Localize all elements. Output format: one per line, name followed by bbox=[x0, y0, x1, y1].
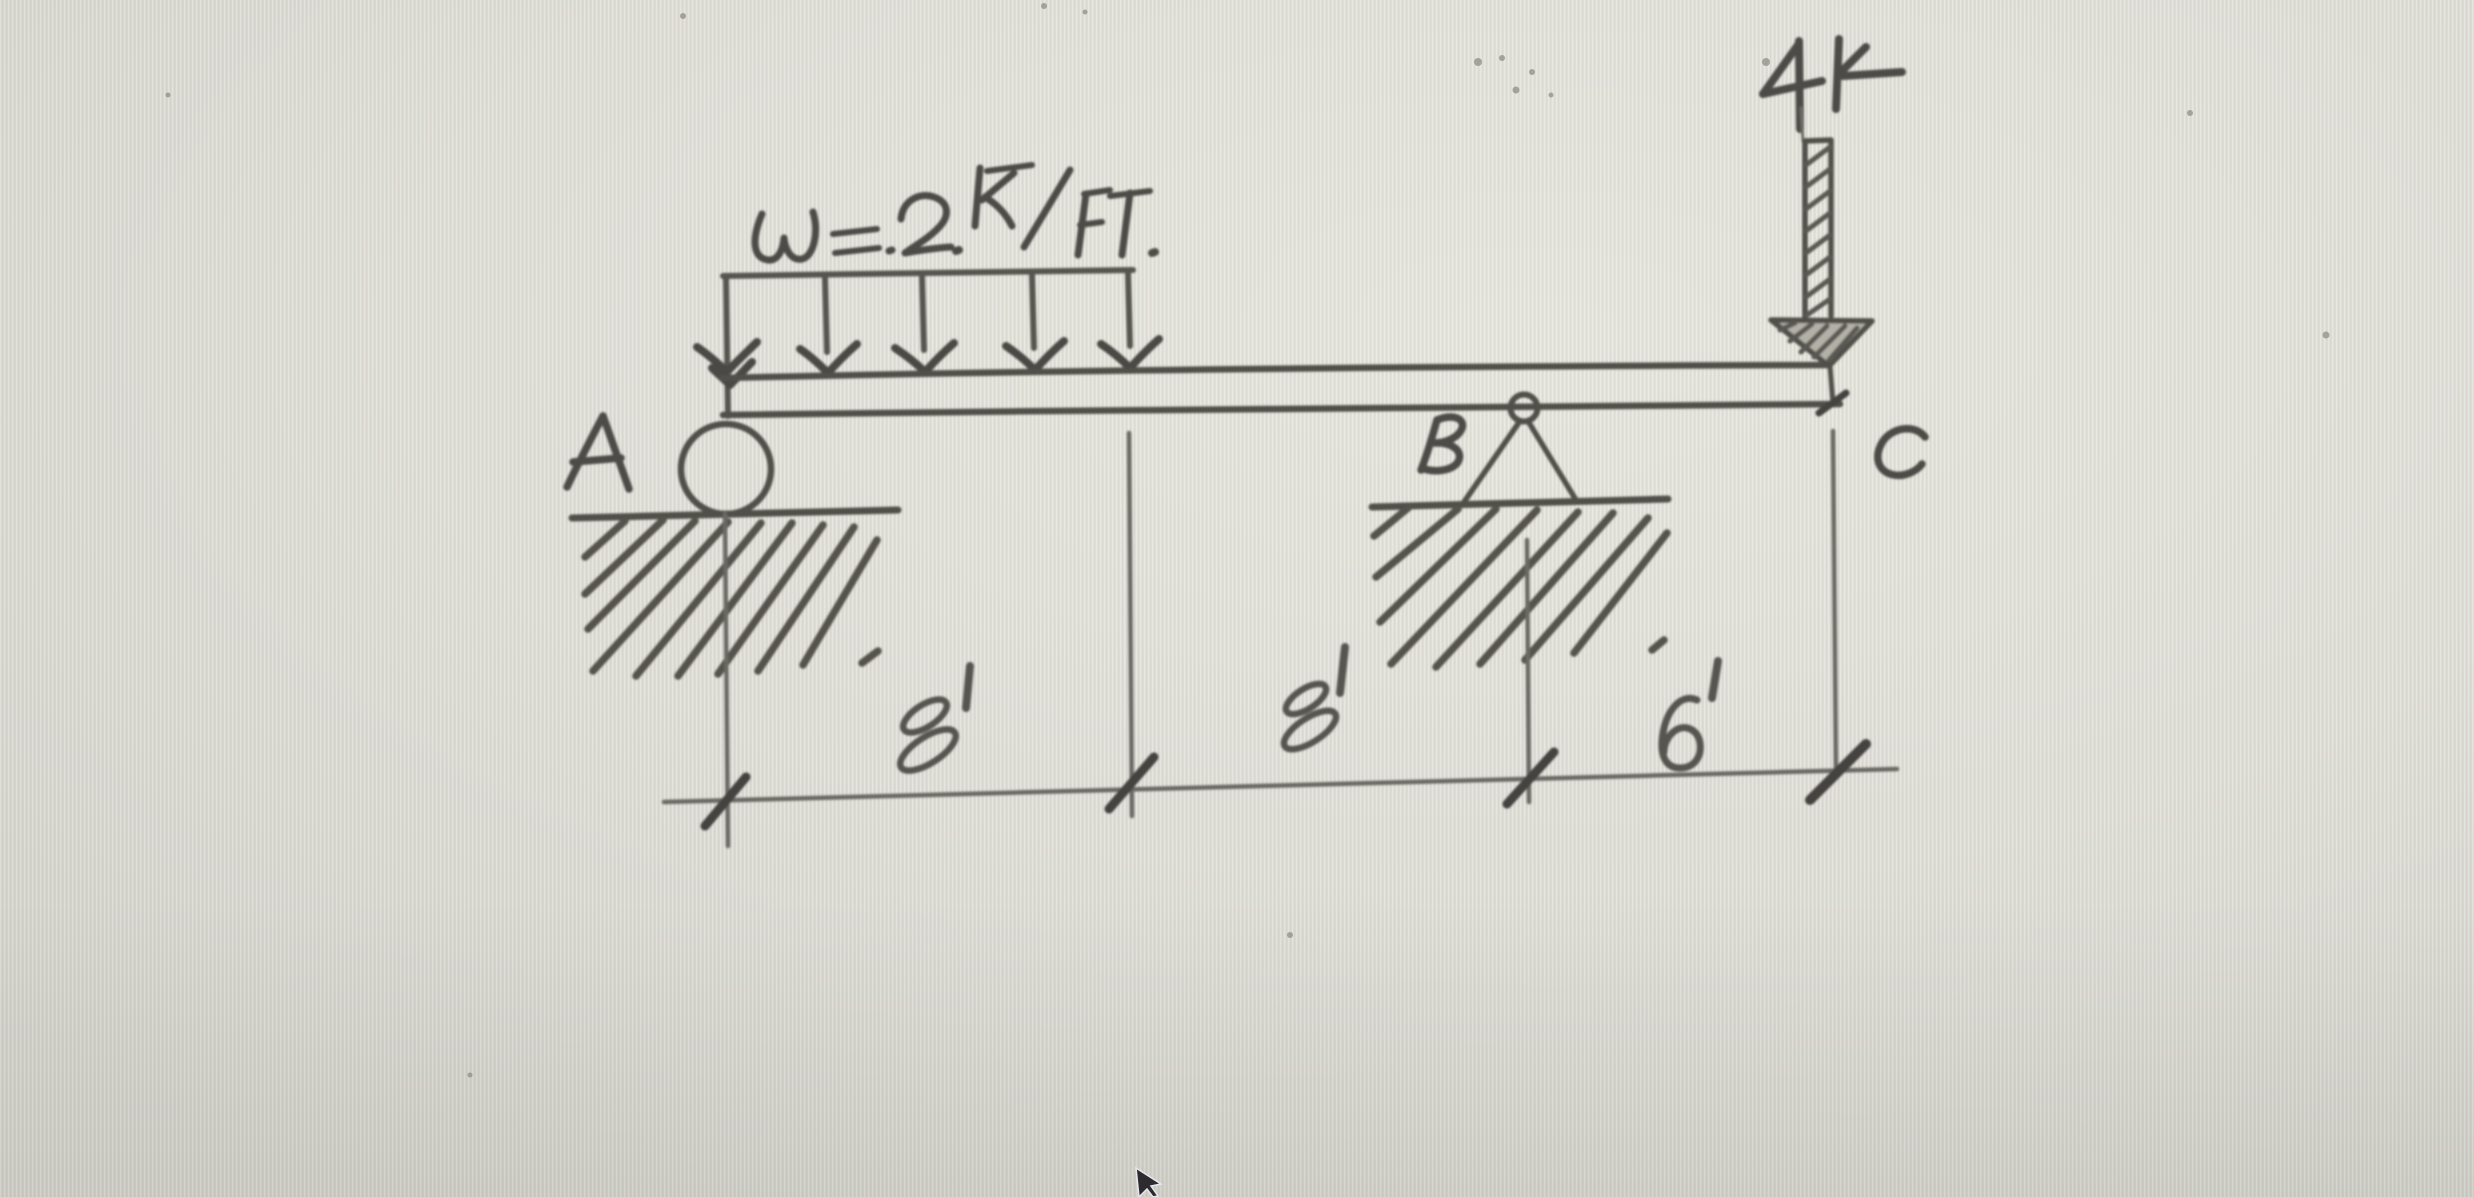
dimension tick 3 bbox=[1507, 752, 1554, 804]
load arrow stem 1 / beam left edge bbox=[726, 276, 728, 416]
dim label 8' (middle) bbox=[1278, 647, 1345, 756]
dimension line bbox=[664, 769, 1897, 802]
speckles bbox=[166, 3, 2330, 1078]
label 4K bbox=[1763, 39, 1902, 129]
label w = 2 K/FT bbox=[755, 165, 1155, 260]
pin support B triangle bbox=[1464, 421, 1576, 502]
label C bbox=[1878, 429, 1925, 476]
label A bbox=[567, 416, 629, 489]
ground line A bbox=[572, 510, 898, 518]
dimension tick 4 bbox=[1810, 744, 1866, 800]
extension line at load end bbox=[1129, 433, 1132, 816]
load arrowhead 1 bbox=[697, 342, 757, 372]
load arrowhead 3 bbox=[895, 343, 954, 372]
extension line at C bbox=[1833, 431, 1836, 772]
beam bottom line bbox=[723, 404, 1840, 415]
distributed load top line bbox=[723, 270, 1133, 276]
label B bbox=[1421, 417, 1463, 471]
load arrowhead 4 bbox=[1006, 341, 1064, 370]
ground hatch B bbox=[1374, 508, 1667, 667]
ground line B bbox=[1372, 499, 1668, 507]
load arrow stem 2 bbox=[825, 277, 827, 352]
force 4K arrowhead bbox=[1771, 320, 1872, 366]
dim label 6' bbox=[1662, 661, 1718, 768]
extension line at A bbox=[725, 514, 728, 846]
dimension tick 2 bbox=[1109, 757, 1154, 809]
load arrowhead 5 bbox=[1101, 339, 1159, 368]
load arrow stem 3 bbox=[922, 276, 924, 350]
roller support A bbox=[681, 424, 771, 514]
load arrowhead 2 bbox=[800, 344, 857, 373]
force 4K shaft hatch bbox=[1806, 147, 1830, 315]
ground hatch A bbox=[585, 520, 878, 676]
load arrow stem 5 bbox=[1128, 274, 1130, 346]
load arrowhead 1b (double stroke) bbox=[712, 362, 752, 385]
dim label 8' (left) bbox=[894, 666, 970, 778]
beam top line bbox=[722, 365, 1829, 378]
beam right edge bbox=[1830, 366, 1833, 404]
load arrow stem 4 bbox=[1032, 275, 1034, 348]
force 4K arrow shaft bbox=[1805, 140, 1831, 318]
beam end tick bbox=[1819, 393, 1846, 413]
extension line at B bbox=[1527, 540, 1529, 802]
force 4K link line bbox=[1801, 108, 1803, 141]
dimension tick 1 bbox=[705, 777, 746, 826]
mouse cursor bbox=[1136, 1168, 1161, 1197]
force 4K arrowhead hatch bbox=[1780, 323, 1857, 360]
pin circle B bbox=[1511, 395, 1538, 422]
